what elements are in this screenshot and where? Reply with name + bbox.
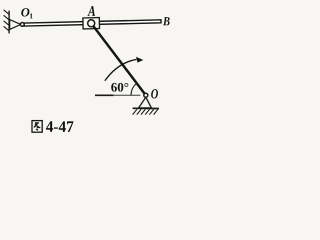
caption: hanzi TU (drawn) xyxy=(32,121,42,133)
svg-text:1: 1 xyxy=(29,11,33,20)
slider block A xyxy=(83,18,100,29)
pin circle A xyxy=(88,20,95,27)
bar O1B xyxy=(24,20,161,26)
svg-text:A: A xyxy=(87,4,95,20)
wall hatching xyxy=(4,10,10,31)
link AO xyxy=(91,23,146,95)
horizontal reference line at O xyxy=(95,94,114,96)
rotation direction arrow arc xyxy=(105,59,137,80)
caption: figure number 4-47 xyxy=(46,119,74,136)
pin circle O xyxy=(144,93,148,97)
svg-text:4-47: 4-47 xyxy=(46,119,74,136)
support triangle at O xyxy=(139,97,152,108)
ground line at O xyxy=(133,107,159,109)
svg-text:B: B xyxy=(162,14,170,28)
paper background xyxy=(0,0,179,144)
svg-text:60°: 60° xyxy=(111,80,129,95)
60-degree angle arc xyxy=(131,83,137,95)
fixed wall at O1 xyxy=(8,11,10,34)
pin support bracket O1 xyxy=(10,20,21,30)
ground hatching xyxy=(133,109,158,114)
svg-text:O: O xyxy=(151,87,159,102)
pin circle O1 xyxy=(20,23,24,27)
arrowhead xyxy=(136,57,143,63)
